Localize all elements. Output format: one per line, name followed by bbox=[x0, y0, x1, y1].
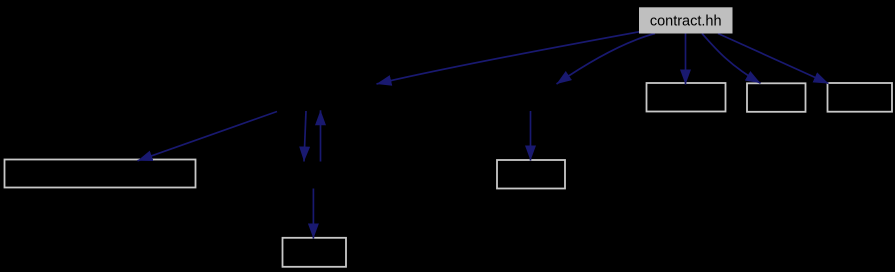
edge contract.hh -> box A (vertical) bbox=[685, 34, 687, 85]
edge contract.hh -> box C bbox=[718, 34, 829, 84]
edge P -> Q (downward) bbox=[304, 111, 306, 162]
edge contract.hh -> box B bbox=[702, 34, 761, 84]
edge R -> middle box (vertical) bbox=[530, 111, 532, 161]
node: box A (row 1) bbox=[647, 83, 726, 112]
edge Q -> P (upward) bbox=[320, 110, 322, 161]
edge Q -> bottom box (vertical) bbox=[312, 189, 314, 239]
node: box B (row 1) bbox=[747, 83, 806, 112]
edge P -> wide box (diagonal) bbox=[138, 112, 278, 161]
svg-text:contract.hh: contract.hh bbox=[650, 13, 722, 29]
node: bottom box (row 3) bbox=[283, 238, 347, 267]
edge contract.hh -> R (to invisible node above middle box) bbox=[557, 34, 656, 85]
node: middle box (row 2, center) bbox=[497, 160, 565, 189]
node contract.hh (root, grey) bbox=[639, 7, 733, 33]
node: wide box (row 2, left) bbox=[5, 160, 196, 188]
node: box C (row 1) bbox=[828, 83, 893, 112]
edge contract.hh -> P (long left arrow) bbox=[377, 32, 640, 84]
